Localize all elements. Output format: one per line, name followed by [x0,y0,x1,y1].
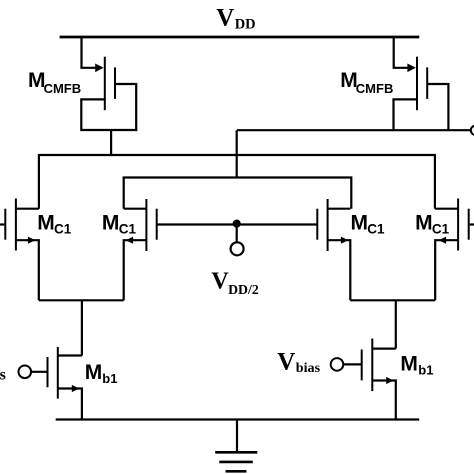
svg-text:C1: C1 [54,222,72,237]
wire dot to VDD/2 terminal [236,224,238,242]
label M_CMFB (left) [28,69,81,96]
wire left tail bus (Q1-Q2 sources) [39,299,124,301]
svg-text:C1: C1 [432,222,450,237]
label VDD/2 [211,269,258,297]
label M_CMFB (right) [340,69,393,96]
svg-text:M: M [37,211,55,234]
wire output node (y=130) to output terminal [237,129,470,131]
wire bus B (drains of Q2, Q3) [124,178,352,209]
svg-text:DD: DD [235,17,256,33]
transistor M_C1 Q2 (inner left) [124,199,157,300]
wire U1 drain to bus A [110,130,112,155]
svg-text:M: M [400,353,418,376]
wire bus A (drains of Q1, Q4, U1) [39,155,435,209]
transistor M_b1 Q5 (left bias) [19,347,82,420]
transistor M_C1 Q4 (outer right) [435,199,474,301]
transistor M_C1 Q3 (inner right) [317,199,350,300]
power rail VDD [60,36,420,39]
svg-text:C1: C1 [367,222,385,237]
svg-text:C1: C1 [119,222,137,237]
svg-text:V: V [211,269,229,295]
svg-text:b1: b1 [102,371,117,386]
label M_C1 (Q4) [415,211,450,236]
wire shared gate net (Q2-Q3 gates) [157,223,318,225]
output terminal circle [471,126,474,135]
label M_C1 (Q3) [351,211,386,236]
wire right tail bus (Q3-Q4 sources) [350,299,435,301]
transistor M_b1 Q6 (right bias) [331,339,396,420]
svg-text:V: V [216,5,234,32]
svg-text:M: M [102,211,120,234]
label M_b1 (Q6) [400,353,433,378]
label VDD [216,5,255,33]
svg-text:b1: b1 [418,363,433,378]
svg-text:M: M [415,211,433,234]
transistor M_CMFB U1 (left, MOS-cap connected) [81,36,136,130]
transistor M_C1 Q1 (outer left) [0,199,39,301]
label V_bias (right) [277,349,320,376]
label M_b1 (Q5) [85,361,118,386]
wire ground bus [56,418,420,420]
ground [215,420,257,472]
label M_C1 (Q2) [102,211,137,236]
wire output node down to bus B [236,130,238,177]
svg-text:CMFB: CMFB [44,81,82,96]
transistor M_CMFB U2 (right, MOS-cap connected) [394,36,449,130]
svg-text:DD/2: DD/2 [228,282,259,297]
svg-text:bias: bias [296,360,321,376]
svg-text:V: V [277,349,295,376]
wire right tail down to Q6 drain [395,300,397,348]
label V_bias (left, clipped at edge) [0,367,6,384]
svg-text:s: s [0,367,6,384]
junction dot VDD/2 node [233,220,241,228]
svg-text:CMFB: CMFB [356,81,394,96]
wire left tail down to Q5 drain [81,300,83,355]
label M_C1 (Q1) [37,211,72,236]
svg-text:M: M [85,361,103,384]
terminal circle VDD/2 [231,242,244,255]
svg-text:M: M [351,211,369,234]
